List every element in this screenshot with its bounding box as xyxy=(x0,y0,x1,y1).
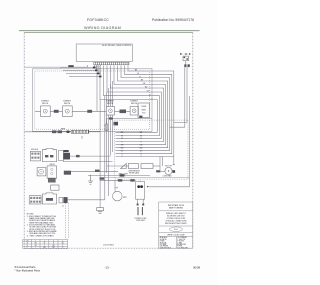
svg-text:OVEN SENSOR: OVEN SENSOR xyxy=(128,170,141,172)
G1 wire lower xyxy=(63,159,112,161)
supply dotted lead line xyxy=(180,53,191,55)
svg-text:4: 4 xyxy=(62,240,63,242)
svg-text:2554T7B02: 2554T7B02 xyxy=(103,244,115,246)
G1 side component xyxy=(59,151,64,161)
G2 wire right xyxy=(71,171,118,173)
wire fan2 xyxy=(116,66,172,154)
fan drop verticals xyxy=(159,157,161,171)
svg-text:4. * SEE CONNECTOR CHART: 4. * SEE CONNECTOR CHART xyxy=(27,235,55,238)
switch box S4 xyxy=(130,107,138,116)
oven section dashed box xyxy=(115,120,189,179)
G3 drop wires to table xyxy=(64,203,66,239)
main frame border xyxy=(24,32,193,34)
G2 lower hatch xyxy=(48,178,55,182)
fan wires group xyxy=(97,66,174,208)
svg-text:WIRING DIAGRAM: WIRING DIAGRAM xyxy=(84,26,121,30)
svg-text:BU: BU xyxy=(145,87,148,89)
connector pair CP1 xyxy=(54,110,59,113)
svg-text:T: T xyxy=(35,247,36,249)
console enclosure inner dotted xyxy=(35,71,150,129)
console enclosure outer xyxy=(33,69,153,132)
svg-text:120V 60HZ: 120V 60HZ xyxy=(136,220,145,222)
right legend table xyxy=(159,202,193,248)
svg-text:B: B xyxy=(27,245,28,247)
switch box S1 xyxy=(41,106,51,117)
TOD thermal switch box xyxy=(138,103,150,118)
svg-text:ST-D: ST-D xyxy=(174,229,178,231)
G1 wire right xyxy=(70,155,111,157)
G3 connector boxes xyxy=(59,197,63,203)
svg-text:V VIOLET: V VIOLET xyxy=(177,241,184,243)
svg-text:SURFACE: SURFACE xyxy=(41,100,49,103)
svg-text:MOTOR: MOTOR xyxy=(165,166,172,168)
connector pair CP3 xyxy=(120,110,127,114)
G3 wire right xyxy=(67,199,104,201)
svg-text:V: V xyxy=(62,245,63,247)
svg-text:# Functional Parts: # Functional Parts xyxy=(15,265,37,269)
bottom-left connector table xyxy=(23,239,68,248)
door switch G3 terminal block xyxy=(29,196,41,204)
fan wire labels xyxy=(135,70,154,101)
wire left from strip to frame edge xyxy=(25,65,88,67)
svg-text:R: R xyxy=(139,76,141,78)
oven box lower wire xyxy=(100,177,189,179)
svg-text:BK BLACK: BK BLACK xyxy=(160,236,169,239)
wire fan7 xyxy=(107,66,161,139)
sensor box B xyxy=(141,164,153,169)
svg-text:FGF348KCC: FGF348KCC xyxy=(87,18,109,22)
svg-text:BR BROWN: BR BROWN xyxy=(177,244,186,246)
ground connector bottom left xyxy=(97,208,104,211)
svg-text:BAKE: BAKE xyxy=(61,127,65,130)
TOD text xyxy=(139,116,142,118)
wire fan6 xyxy=(111,66,164,142)
bake tick xyxy=(81,136,83,139)
ladder row labels right column xyxy=(140,132,143,158)
fuse F1 xyxy=(183,56,189,61)
svg-text:LATCH: LATCH xyxy=(49,163,55,166)
connector blobs on bake wire xyxy=(52,130,56,133)
wire fan9 xyxy=(100,66,157,133)
svg-text:SURFACE: SURFACE xyxy=(63,100,71,103)
svg-text:SWITCH: SWITCH xyxy=(42,103,49,105)
motor circle bottom xyxy=(113,191,123,201)
svg-text:IMPORTANT NOTE: IMPORTANT NOTE xyxy=(168,204,185,207)
spark module G1 terminal block xyxy=(30,151,40,161)
svg-text:VENT: VENT xyxy=(141,109,146,111)
long mid wire xyxy=(88,174,150,176)
svg-text:OVEN LIGHT: OVEN LIGHT xyxy=(118,173,128,175)
sensor row: buzzer triangle xyxy=(121,164,127,169)
svg-text:GN: GN xyxy=(52,247,54,249)
bus vertical N xyxy=(174,67,187,122)
pin drop wire f xyxy=(110,84,112,155)
svg-text:GY: GY xyxy=(35,245,37,247)
ground stub mid xyxy=(88,175,93,184)
svg-text:W: W xyxy=(121,135,123,137)
svg-text:V: V xyxy=(149,94,151,96)
wire fan8 xyxy=(104,66,160,136)
svg-text:R: R xyxy=(53,243,55,245)
G3 inner label xyxy=(46,198,53,201)
G1 connector dark xyxy=(64,153,70,159)
svg-text:W-BK WHT-BLK: W-BK WHT-BLK xyxy=(160,247,172,249)
svg-text:W: W xyxy=(140,135,142,137)
left turn wires from strip xyxy=(60,65,100,77)
relay legs xyxy=(137,199,139,205)
svg-text:J2: J2 xyxy=(62,205,64,207)
ground triangle right of relay xyxy=(147,186,149,188)
svg-text:Publication No: 5995447176: Publication No: 5995447176 xyxy=(152,18,194,22)
svg-text:TOD: TOD xyxy=(142,113,146,115)
junction blobs mid xyxy=(95,170,100,172)
fan wires xyxy=(160,170,165,172)
sensor box A xyxy=(128,164,138,169)
svg-text:3: 3 xyxy=(53,240,54,242)
svg-text:WIRE ALL UNITS EXACTLY: WIRE ALL UNITS EXACTLY xyxy=(166,212,187,215)
svg-text:BK: BK xyxy=(135,70,138,72)
wire fan4 xyxy=(116,66,168,148)
relay box K1 xyxy=(136,182,145,200)
spark module G1 main box xyxy=(42,149,56,162)
svg-text:SURFACE: SURFACE xyxy=(130,100,138,103)
connector blob on drop wire xyxy=(114,122,119,126)
svg-text:SWITCH: SWITCH xyxy=(107,103,114,105)
svg-text:-13-: -13- xyxy=(105,266,110,270)
pin drop wire g xyxy=(111,81,113,152)
svg-text:BK: BK xyxy=(35,243,37,245)
svg-text:SWITCH: SWITCH xyxy=(64,103,71,105)
fuse lower connector blobs xyxy=(184,64,186,67)
pin drop wire e xyxy=(107,88,109,196)
wire fan1 xyxy=(116,66,174,157)
G2 connector dark xyxy=(64,171,71,175)
fan connector blob xyxy=(156,170,160,172)
oven light switch vertical component xyxy=(104,119,108,131)
svg-text:OR ORANGE: OR ORANGE xyxy=(177,236,186,239)
switch box S3 xyxy=(106,107,114,116)
pin drop wire b xyxy=(99,100,101,208)
title underline xyxy=(19,30,200,32)
svg-text:Y: Y xyxy=(151,98,153,100)
pin drop wire c xyxy=(104,96,106,200)
op: EOC control board box U1 xyxy=(76,44,132,62)
connector blob on light wire xyxy=(109,117,113,119)
door switch G3 main box xyxy=(42,193,56,204)
switch box S2 xyxy=(63,106,73,117)
switch S2 label xyxy=(63,100,71,105)
svg-text:R-W RED-WHT: R-W RED-WHT xyxy=(177,247,188,249)
svg-text:OR: OR xyxy=(143,83,146,85)
switch S4 label xyxy=(130,100,138,105)
switch S3 label xyxy=(106,100,114,105)
svg-text:W: W xyxy=(44,243,46,245)
svg-text:OVEN: OVEN xyxy=(141,106,147,108)
svg-text:MODULE: MODULE xyxy=(31,149,38,151)
svg-text:MTR: MTR xyxy=(123,197,127,199)
svg-text:BU: BU xyxy=(62,243,64,245)
svg-text:CONV FAN: CONV FAN xyxy=(163,175,172,178)
wire fan5 xyxy=(114,66,166,145)
bake element row wire xyxy=(25,131,101,133)
convection fan motor xyxy=(165,167,172,174)
svg-text:Y: Y xyxy=(44,245,45,247)
svg-text:P: P xyxy=(62,247,63,249)
pin drop wire d xyxy=(106,92,108,173)
latch G2 tall box xyxy=(47,166,57,178)
G3 small box above xyxy=(51,185,59,190)
oven light wire xyxy=(107,118,153,120)
connector pair CP2 xyxy=(87,110,92,113)
svg-text:COPPER CONDUCTORS.: COPPER CONDUCTORS. xyxy=(166,218,186,220)
ladder row labels left column xyxy=(121,132,124,158)
svg-text:BU BLUE: BU BLUE xyxy=(160,242,167,244)
igniter switch row wire xyxy=(35,110,130,112)
wire fan3 xyxy=(116,66,170,151)
latch G2 circle box xyxy=(37,168,46,176)
svg-text:* Non-Illustrated Parts: * Non-Illustrated Parts xyxy=(15,269,41,273)
bake element E1 xyxy=(71,130,89,133)
power cord blades xyxy=(137,207,139,215)
switch S1 label xyxy=(41,100,49,105)
svg-text:WIRE COLOR CODE: WIRE COLOR CODE xyxy=(167,234,185,236)
svg-text:2: 2 xyxy=(44,240,45,242)
notes block xyxy=(27,214,57,238)
svg-text:SWITCH: SWITCH xyxy=(131,103,138,105)
svg-text:ELECTRONIC OVEN CONTROL: ELECTRONIC OVEN CONTROL xyxy=(102,45,132,47)
connector strip P1 xyxy=(94,62,129,65)
pin drop wire a xyxy=(96,66,98,112)
oval stamp xyxy=(170,227,183,232)
G1 connector label xyxy=(64,150,69,152)
svg-text:OR: OR xyxy=(52,245,55,247)
svg-text:SAFETY WIRING: SAFETY WIRING xyxy=(169,207,184,210)
bus vertical right long xyxy=(149,96,190,187)
svg-text:1: 1 xyxy=(35,240,36,242)
bottom row wire xyxy=(100,179,136,181)
svg-text:W: W xyxy=(137,73,139,75)
connector label blob on left wire xyxy=(68,65,73,67)
svg-text:CN: CN xyxy=(26,240,28,242)
sensor row wires xyxy=(107,165,129,167)
svg-text:W WHITE: W WHITE xyxy=(160,239,167,241)
svg-text:Y YELLOW: Y YELLOW xyxy=(177,239,185,241)
bus vertical L1 xyxy=(170,67,185,127)
svg-text:06/08: 06/08 xyxy=(193,266,200,270)
svg-text:BK: BK xyxy=(141,80,144,82)
